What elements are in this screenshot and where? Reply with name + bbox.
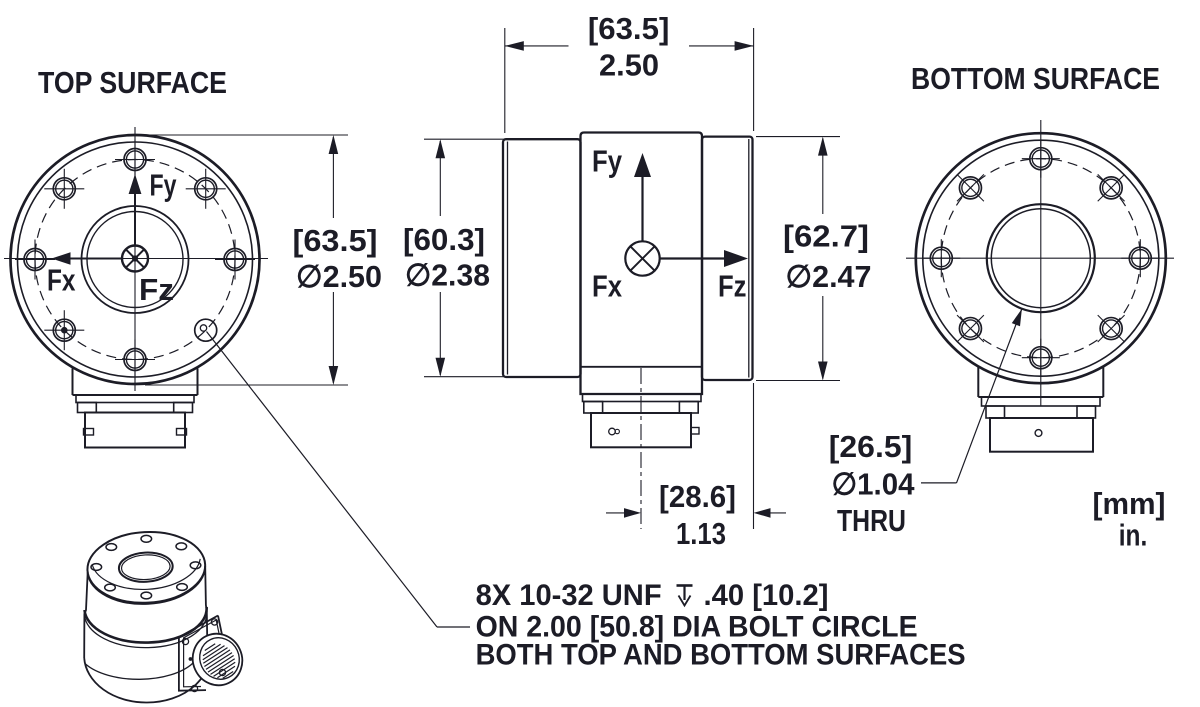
bolt hole L-topright v-mark [205, 169, 207, 209]
svg-text:[28.6]: [28.6] [659, 479, 736, 514]
iso plate screw 1 [182, 638, 188, 644]
left view hub inner circle [87, 212, 183, 308]
iso plate screw 4 [191, 685, 197, 691]
left view vertical centerline [134, 127, 136, 391]
dim 28.6 line right [756, 512, 786, 514]
dim 60.3 line lower [439, 292, 441, 375]
bolt hole R-bottomleft diag mark 2 [957, 315, 984, 342]
iso body bottom arc [84, 644, 209, 703]
right view connector circle [1035, 430, 1042, 437]
bolt hole L-bottomleft inner [56, 322, 73, 339]
middle Fz arrowhead [724, 250, 748, 267]
bolt hole L-right h-mark [215, 259, 255, 261]
middle view left flange inner edge line [507, 142, 509, 375]
pilot hole small circle [200, 325, 206, 331]
dim top 63.5 right extension [753, 28, 755, 131]
iso connector pin line 11 [223, 672, 233, 679]
iso flange hole 2 [106, 544, 117, 551]
svg-text:∅2.50: ∅2.50 [296, 259, 382, 294]
dim top 63.5 line left [505, 45, 569, 47]
dim 62.7 bottom arrow [818, 362, 828, 381]
left view axis spoke NW-SE [126, 249, 144, 267]
left view Fy arrowhead [129, 174, 142, 194]
iso connector barrel inner [193, 631, 246, 686]
iso top flange outer ellipse [86, 529, 207, 606]
bolt hole R-bottomleft inner [962, 320, 979, 337]
left view Fx arrow line [69, 258, 122, 260]
bolt hole R-bottomright diag mark 1 [1098, 315, 1125, 342]
svg-text:∅2.47: ∅2.47 [786, 259, 872, 294]
right view bore outer circle [987, 204, 1095, 312]
dim 62.7 top extension [756, 136, 840, 138]
iso connector plate inner rim right [216, 620, 225, 661]
bolt hole R-top inner [1032, 150, 1049, 167]
dim 60.3 bottom arrow [436, 358, 446, 377]
right view base left edge [977, 367, 979, 398]
bolt hole R-right outer [1129, 247, 1151, 269]
svg-text:THRU: THRU [837, 503, 906, 538]
bolt hole R-left outer [930, 247, 952, 269]
dim 63.5 bottom extension line [145, 384, 348, 386]
bolt hole L-bottom inner [126, 351, 143, 368]
svg-text:Fz: Fz [139, 272, 174, 307]
iso lower band arc [86, 663, 194, 679]
svg-text:Fy: Fy [592, 144, 623, 179]
pilot hole outer [195, 319, 217, 341]
dim top 63.5 left arrow [505, 41, 524, 51]
left view inner rim circle [18, 142, 253, 377]
leader horizontal thru hole [921, 482, 957, 484]
middle axis spoke NE-SW [630, 246, 654, 270]
bolt hole R-left v-mark [940, 239, 942, 277]
depth symbol stem [683, 586, 685, 601]
dim 28.6 left arrow (points right) [624, 508, 641, 518]
svg-text:[mm]: [mm] [1093, 486, 1166, 521]
iso mid band arc thick [85, 607, 207, 643]
middle view connector key circle [609, 428, 616, 435]
svg-text:BOTH TOP AND BOTTOM SURFACES: BOTH TOP AND BOTTOM SURFACES [476, 639, 966, 672]
bolt hole L-bottomleft center dot [61, 327, 67, 333]
bolt hole R-bottom inner [1032, 349, 1049, 366]
dim 63.5 line upper [332, 137, 334, 218]
left view connector left nub [84, 429, 94, 436]
bolt hole L-topleft outer [53, 178, 75, 200]
bolt hole L-right inner [226, 251, 243, 268]
bolt hole L-top v-mark [134, 140, 136, 180]
iso top flange inner ring lower arc [92, 559, 200, 590]
iso bore inner ellipse [121, 554, 171, 581]
left view outer circle [11, 135, 260, 384]
bolt hole R-topleft diag mark 2 [957, 174, 984, 201]
dim 28.6 line left [606, 512, 624, 514]
right view base bottom edge [978, 396, 1103, 398]
dim top 63.5 line right [689, 45, 754, 47]
left view axis center dot [132, 256, 137, 261]
dim top 63.5 left extension [504, 28, 506, 133]
bolt hole R-right inner [1132, 250, 1149, 267]
bolt hole L-bottomleft v-mark [63, 310, 65, 350]
dim 60.3 top extension [424, 138, 504, 140]
iso plate dot [189, 657, 193, 661]
depth symbol top bar [677, 584, 693, 587]
right view base step strip [982, 397, 1101, 406]
middle view connector key circle 2 [615, 429, 619, 433]
right view base right edge [1102, 367, 1104, 398]
bolt hole R-top h-mark [1022, 158, 1060, 160]
left view right tab [174, 403, 193, 413]
left view Fy arrow line [134, 193, 136, 246]
svg-text:1.13: 1.13 [676, 516, 726, 551]
bolt hole L-left v-mark [34, 240, 36, 280]
svg-text:in.: in. [1119, 518, 1148, 553]
iso flange lower edge arc [88, 567, 206, 604]
bolt hole L-bottomleft outer [53, 319, 75, 341]
bolt hole R-bottomleft diag mark 1 [957, 315, 984, 342]
right view bolt circle dashed [941, 159, 1140, 358]
svg-text:BOTTOM SURFACE: BOTTOM SURFACE [911, 61, 1160, 96]
bolt hole R-topright outer [1100, 177, 1122, 199]
svg-text:2.50: 2.50 [599, 48, 659, 83]
bolt hole L-topleft inner [56, 180, 73, 197]
bolt hole R-topleft outer [959, 177, 981, 199]
svg-text:[63.5]: [63.5] [588, 11, 670, 46]
svg-text:8X 10-32 UNF: 8X 10-32 UNF [476, 579, 662, 612]
bolt hole L-top h-mark [115, 159, 155, 161]
iso connector pin line 3 [203, 646, 225, 660]
iso connector pin line 7 [208, 656, 234, 673]
right view connector body [990, 418, 1093, 452]
left view base step strip [76, 395, 194, 403]
dim 62.7 line upper [822, 139, 824, 215]
dim 60.3 line upper [439, 141, 441, 216]
bolt hole L-left inner [26, 251, 43, 268]
svg-text:[26.5]: [26.5] [829, 429, 913, 464]
iso connector plate inner rim [184, 620, 217, 687]
left view connector right nub [177, 429, 187, 436]
middle Fy arrowhead [634, 153, 651, 177]
bolt hole R-bottom h-mark [1022, 357, 1060, 359]
bolt hole R-bottomleft outer [959, 318, 981, 340]
bolt hole L-bottomleft h-mark [44, 329, 84, 331]
iso connector plate right edge [218, 616, 229, 668]
bolt hole L-topright h-mark [186, 188, 226, 190]
iso flange hole 4 [91, 564, 102, 571]
left view axis spoke NE-SW [126, 249, 144, 267]
middle axis spoke NW-SE [630, 246, 654, 270]
dim top 63.5 right arrow [735, 41, 754, 51]
middle view right flange [702, 137, 753, 380]
bolt hole L-bottom outer [124, 349, 146, 371]
iso plate screw 2 [211, 619, 217, 625]
depth symbol arrowhead [679, 596, 691, 606]
iso connector pin line 6 [206, 653, 232, 670]
bolt hole R-topleft diag mark 1 [957, 174, 984, 201]
middle view right flange inner edge line [748, 139, 750, 378]
right view horizontal centerline [906, 257, 1174, 259]
svg-text:Fx: Fx [592, 269, 623, 304]
left view Fx arrowhead [52, 252, 71, 264]
left view base right edge [197, 369, 199, 396]
leader arrowhead thru hole [1012, 309, 1022, 327]
iso mid band arc thin [84, 612, 206, 648]
iso flange hole 1 [141, 535, 152, 542]
bolt hole R-right h-mark [1121, 257, 1159, 259]
svg-text:∅1.04: ∅1.04 [832, 467, 916, 502]
bolt hole L-top inner [126, 151, 143, 168]
iso connector pin line 5 [204, 650, 230, 667]
bolt hole L-topleft v-mark [63, 169, 65, 209]
svg-text:TOP SURFACE: TOP SURFACE [38, 65, 227, 100]
dim 63.5 bottom arrow [329, 366, 339, 385]
bolt hole R-bottomright inner [1103, 320, 1120, 337]
dim 60.3 bottom extension [424, 376, 580, 378]
middle view left tab [584, 402, 603, 414]
middle Fy arrow line [641, 176, 643, 241]
middle view center block [581, 133, 703, 395]
dim 28.6 right extension [753, 383, 755, 529]
bolt hole R-topright diag mark 2 [1098, 174, 1125, 201]
iso connector plate outline [179, 616, 218, 691]
middle view connector right nub [691, 428, 699, 435]
bolt hole L-right outer [224, 249, 246, 271]
middle view base step strip [583, 394, 702, 402]
right view vertical centerline [1040, 120, 1042, 406]
bolt hole R-bottom outer [1030, 347, 1052, 369]
bolt hole L-bottom h-mark [115, 359, 155, 361]
iso bore outer ellipse [118, 551, 173, 583]
right view inner rim circle [923, 140, 1159, 376]
bolt hole L-bottom v-mark [134, 340, 136, 380]
iso flange hole 3 [176, 543, 187, 550]
dim 28.6 right arrow (points left) [754, 508, 771, 518]
bolt hole L-topright inner [197, 180, 214, 197]
iso flange hole 5 [190, 562, 201, 569]
left view horizontal centerline [4, 258, 268, 260]
left view base bottom edge [73, 394, 198, 396]
svg-text:[60.3]: [60.3] [403, 222, 485, 257]
dim 62.7 line lower [822, 296, 824, 379]
middle view right tab [679, 402, 698, 414]
left view connector body [85, 413, 185, 448]
iso connector pin line 1 [205, 644, 215, 651]
iso plate screw 3 [219, 669, 225, 675]
left view hub outer circle [82, 206, 189, 313]
dim 62.7 top arrow [818, 137, 828, 156]
leader elbow horizontal [437, 626, 470, 628]
bolt hole R-bottomright diag mark 2 [1098, 315, 1125, 342]
leader line from pilot hole [207, 332, 438, 628]
middle view base separation line [581, 366, 703, 368]
middle view axis symbol circle [625, 241, 659, 275]
bolt hole R-topright diag mark 1 [1098, 174, 1125, 201]
svg-text:.40 [10.2]: .40 [10.2] [704, 579, 829, 612]
middle view connector body [591, 413, 691, 447]
svg-text:Fy: Fy [150, 168, 178, 203]
dim 60.3 top arrow [436, 139, 446, 158]
svg-text:[63.5]: [63.5] [293, 223, 378, 258]
iso body right silhouette [205, 566, 207, 644]
bolt hole R-bottomright outer [1100, 318, 1122, 340]
middle Fz arrow line [660, 257, 726, 259]
dim 63.5 line lower [332, 292, 334, 383]
leader line thru hole [957, 309, 1022, 483]
svg-text:Fx: Fx [47, 263, 76, 298]
iso connector pin line 4 [203, 648, 227, 664]
svg-text:Fz: Fz [718, 269, 747, 304]
dim 63.5 top arrow [329, 135, 339, 154]
right view left tab [986, 406, 1005, 418]
iso connector barrel outer [184, 626, 250, 694]
bolt hole R-topleft inner [962, 179, 979, 196]
bolt hole L-topleft h-mark [44, 188, 84, 190]
iso body left silhouette [84, 572, 88, 658]
bolt hole R-top outer [1030, 148, 1052, 170]
bolt hole L-right v-mark [234, 240, 236, 280]
bolt hole R-right v-mark [1139, 239, 1141, 277]
iso connector pin line 2 [203, 644, 221, 656]
left view base left edge [72, 369, 74, 396]
bolt hole R-topright inner [1103, 179, 1120, 196]
iso flange hole 7 [177, 584, 188, 591]
iso flange hole 6 [105, 584, 116, 591]
bolt hole L-top outer [124, 149, 146, 171]
iso flange hole 8 [141, 592, 152, 599]
left view axis symbol circle [122, 246, 148, 272]
iso connector pin line 8 [211, 659, 235, 675]
svg-text:[62.7]: [62.7] [783, 219, 869, 254]
dim 63.5 top extension line [145, 134, 348, 136]
bolt hole R-left h-mark [922, 257, 960, 259]
middle view left flange [503, 139, 581, 377]
right view right tab [1077, 406, 1096, 418]
right view bore inner circle [991, 209, 1090, 308]
bolt hole R-left inner [933, 250, 950, 267]
iso connector pin line 9 [214, 662, 236, 676]
dim 62.7 bottom extension [756, 380, 840, 382]
right view outer circle [916, 133, 1166, 383]
bolt hole R-bottom v-mark [1040, 339, 1042, 377]
left view left tab [78, 403, 97, 413]
bolt hole L-topright outer [195, 178, 217, 200]
middle view vertical centerline [640, 368, 642, 529]
bolt hole L-left outer [24, 249, 46, 271]
bolt hole L-left h-mark [15, 259, 55, 261]
iso connector pin line 10 [217, 666, 235, 678]
svg-text:∅2.38: ∅2.38 [405, 258, 490, 293]
left view bolt circle dashed [35, 160, 235, 360]
bolt hole R-top v-mark [1040, 140, 1042, 178]
